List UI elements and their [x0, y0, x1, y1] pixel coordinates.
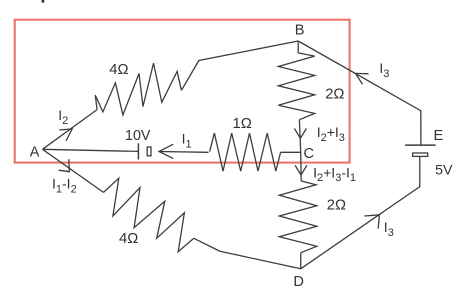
- arrow I2+I3: [294, 129, 306, 139]
- svg-text:I1-I2: I1-I2: [52, 176, 77, 196]
- wire node B down to upper 2ohm: [297, 41, 299, 53]
- svg-text:5V: 5V: [435, 163, 453, 179]
- svg-text:I3: I3: [384, 219, 394, 239]
- svg-text:I2: I2: [58, 107, 68, 127]
- svg-text:2Ω: 2Ω: [327, 198, 346, 214]
- wire 1ohm to node C: [281, 151, 301, 153]
- wire A to top 4ohm resistor: [43, 110, 98, 150]
- wire upper 2ohm to node C: [299, 120, 301, 181]
- stray text descender mark at top: [42, 0, 45, 3]
- battery V2 5V long plate: [405, 144, 436, 146]
- svg-text:D: D: [293, 274, 304, 290]
- svg-text:B: B: [295, 22, 305, 38]
- resistor R 1ohm: [210, 133, 281, 171]
- svg-text:4Ω: 4Ω: [119, 231, 138, 247]
- arrow I3 upper: [356, 73, 369, 84]
- svg-text:I1: I1: [182, 131, 192, 151]
- battery V1 10V long plate: [137, 143, 139, 159]
- wire node B to 5V battery top: [298, 41, 421, 145]
- arrow I2+I3-I1: [295, 165, 307, 175]
- battery V2 5V short plate: [413, 153, 428, 156]
- resistor R 2ohm upper: [278, 53, 314, 120]
- arrow I1: [159, 144, 173, 158]
- svg-text:E: E: [434, 128, 444, 144]
- arrow I3 lower: [364, 215, 379, 229]
- resistor R 2ohm lower: [279, 181, 317, 253]
- arrow I1-I2: [59, 159, 70, 172]
- svg-text:I3: I3: [379, 60, 389, 80]
- svg-text:A: A: [30, 144, 40, 160]
- svg-text:1Ω: 1Ω: [233, 116, 252, 132]
- svg-text:10V: 10V: [125, 128, 151, 144]
- svg-text:2Ω: 2Ω: [325, 87, 344, 103]
- wire lower 2ohm to node D: [300, 253, 302, 269]
- svg-text:I2+I3-I1: I2+I3-I1: [313, 164, 356, 184]
- svg-text:I2+I3: I2+I3: [317, 124, 345, 144]
- red highlight box: [15, 20, 350, 163]
- svg-text:C: C: [304, 146, 315, 162]
- wire top 4ohm to node B: [181, 41, 298, 90]
- wire 5V battery bottom to node D: [301, 156, 420, 268]
- wire battery to 1ohm resistor: [159, 151, 209, 154]
- wire bottom 4ohm to node D: [194, 238, 301, 268]
- resistor R 4ohm bottom: [104, 178, 194, 252]
- svg-text:4Ω: 4Ω: [109, 62, 128, 78]
- arrow I2: [59, 129, 72, 141]
- wire A to 10V battery: [43, 149, 139, 151]
- resistor R 4ohm top: [95, 63, 181, 115]
- battery V1 10V short plate: [147, 147, 151, 156]
- wire A to bottom 4ohm resistor: [43, 149, 104, 192]
